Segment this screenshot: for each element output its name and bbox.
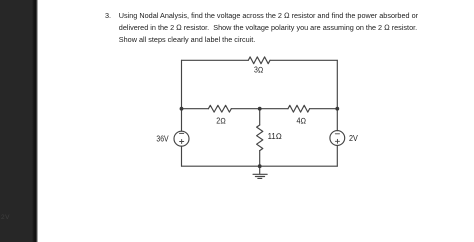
- V1 plus sign: [180, 141, 184, 143]
- svg-text:11Ω: 11Ω: [268, 132, 282, 141]
- svg-text:2Ω: 2Ω: [216, 117, 226, 126]
- resistor R 3ohm (top): [248, 57, 270, 64]
- voltage source V1 36V circle: [174, 131, 189, 146]
- wire: top-left lead to 3-ohm resistor: [182, 59, 249, 61]
- wire: right vertical lower segment: [336, 146, 338, 167]
- voltage source V2 2V circle: [330, 131, 345, 146]
- wire: centre branch lower: [259, 151, 261, 167]
- node D (bottom centre junction): [258, 164, 262, 168]
- wire: centre branch upper: [259, 109, 261, 125]
- svg-text:36V: 36V: [156, 135, 169, 144]
- wire: bottom: [182, 165, 338, 167]
- wire: right vertical upper segment: [336, 60, 338, 130]
- problem statement text: [105, 10, 418, 46]
- dark application sidebar: [0, 0, 38, 242]
- ground symbol: [253, 166, 267, 178]
- svg-text:3Ω: 3Ω: [254, 65, 263, 74]
- wire: centre node to 4-ohm: [260, 108, 288, 110]
- resistor R 11ohm (vertical): [257, 125, 263, 151]
- V1 minus sign: [180, 132, 184, 134]
- V2 plus sign: [335, 140, 339, 142]
- node A (left middle junction): [180, 107, 184, 111]
- wire: 4-ohm to right node: [310, 108, 338, 110]
- resistor R 2ohm: [208, 105, 231, 112]
- wire: middle left lead: [182, 108, 209, 110]
- wire: left vertical upper segment: [181, 60, 183, 131]
- wire: 2-ohm to centre node: [231, 108, 259, 110]
- resistor R 4ohm: [288, 105, 310, 112]
- svg-text:2V: 2V: [349, 134, 358, 143]
- svg-text:4Ω: 4Ω: [297, 117, 307, 126]
- node C (right middle junction): [335, 107, 339, 111]
- wire: left vertical lower segment: [181, 146, 183, 166]
- wire: 3-ohm resistor to top-right corner: [270, 59, 337, 61]
- V2 minus sign: [335, 133, 339, 135]
- node B (centre junction): [258, 107, 262, 111]
